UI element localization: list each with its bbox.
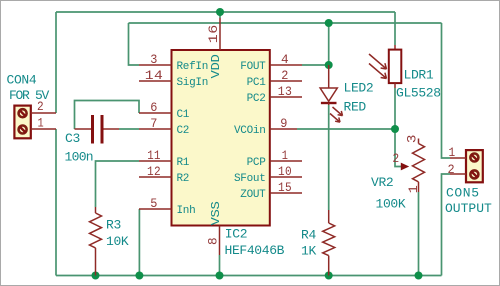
svg-text:9: 9 [280, 116, 288, 131]
pin 3 RefIn [139, 52, 172, 67]
svg-text:R1: R1 [177, 157, 190, 169]
pin 12 R2 [139, 164, 172, 179]
CON5 pin 1 [449, 145, 467, 160]
pin 8 VSS [206, 226, 221, 256]
CON4 pin 2 [31, 99, 56, 114]
wire RefIn riser to pin3 [129, 23, 140, 65]
pin 10 SFout [270, 164, 302, 179]
connector CON4 [14, 106, 30, 139]
junction FOUT/LED [325, 61, 333, 69]
wire LED anode riser [328, 23, 330, 65]
svg-text:12: 12 [147, 164, 161, 179]
svg-text:LED2: LED2 [344, 81, 374, 96]
pin 15 ZOUT [270, 180, 302, 195]
svg-text:10: 10 [278, 164, 292, 179]
pin 13 PC2 [270, 84, 302, 99]
pin 5 Inh [139, 196, 172, 211]
svg-text:LDR1: LDR1 [404, 68, 434, 83]
svg-text:SFout: SFout [234, 173, 266, 185]
svg-text:FOR 5V: FOR 5V [9, 88, 50, 103]
wire VR2 bottom to ground [418, 192, 420, 276]
svg-text:100n: 100n [65, 150, 93, 165]
svg-text:C1: C1 [177, 109, 190, 121]
junction VCOin/LDR/VR2 [391, 125, 399, 133]
svg-text:2: 2 [281, 68, 289, 83]
op-amp U1 body: IC2 HEF4046B [172, 50, 270, 226]
wire left riser CON4 pin1 to ground rail [55, 129, 57, 276]
svg-text:VDD: VDD [209, 54, 223, 78]
junction RefIn/LED [325, 19, 333, 27]
junction ground R4 [325, 272, 333, 280]
wire VDD drop to pin16 [219, 12, 221, 18]
wire VDD top rail [56, 11, 395, 13]
svg-text:VR2: VR2 [371, 175, 393, 190]
svg-text:GL5528: GL5528 [396, 86, 441, 101]
svg-text:100K: 100K [376, 197, 406, 212]
resistor R3 [90, 207, 102, 276]
pin 4 FOUT [270, 52, 302, 67]
svg-text:VCOin: VCOin [234, 125, 266, 137]
svg-text:1: 1 [406, 185, 421, 194]
wire VCOin net [297, 128, 395, 130]
svg-text:R4: R4 [301, 227, 316, 242]
junction ground Inh [135, 272, 143, 280]
svg-text:2: 2 [393, 151, 400, 166]
svg-text:6: 6 [150, 100, 158, 115]
pin 1 PCP [270, 148, 302, 163]
svg-text:3: 3 [405, 134, 420, 143]
wire LDR top [394, 12, 396, 45]
pin 2 PC1 [270, 68, 302, 83]
svg-text:PCP: PCP [247, 157, 267, 169]
wire LDR bottom to VCOin [394, 88, 396, 129]
wire Inh to ground [138, 209, 140, 276]
pin 6 C1 [139, 100, 172, 115]
svg-text:CON5: CON5 [446, 185, 480, 200]
connector CON5 [466, 150, 483, 182]
svg-text:PC2: PC2 [247, 93, 266, 105]
svg-text:2: 2 [448, 162, 456, 177]
wire C2 net [119, 128, 139, 130]
svg-text:3: 3 [150, 52, 158, 67]
capacitor C3 [75, 115, 120, 144]
IC pin names [177, 54, 267, 225]
junction VDD/pin16 [216, 8, 224, 16]
svg-text:SigIn: SigIn [177, 77, 209, 89]
svg-text:OUTPUT: OUTPUT [445, 201, 492, 216]
wire C1 net [75, 101, 140, 130]
svg-text:RED: RED [344, 100, 367, 115]
wire CON5 pin1 riser [442, 23, 451, 158]
svg-text:7: 7 [150, 116, 158, 131]
CON5 pin 2 [448, 162, 467, 177]
LED D2 [320, 65, 342, 122]
svg-text:16: 16 [206, 24, 221, 43]
svg-text:RefIn: RefIn [177, 61, 209, 73]
svg-text:14: 14 [145, 68, 164, 83]
svg-text:CON4: CON4 [7, 73, 37, 88]
pin 11 R1 [139, 148, 172, 163]
svg-text:15: 15 [278, 180, 292, 195]
svg-text:1: 1 [38, 116, 45, 131]
photoresistor LDR1 [369, 45, 401, 88]
wire FOUT to LED [302, 64, 329, 66]
CON4 pin 1 [31, 116, 56, 131]
wire ground bottom rail [56, 275, 442, 277]
wire R1 to R3 [96, 161, 140, 207]
svg-text:PC1: PC1 [247, 77, 267, 89]
resistor R4 [323, 210, 335, 276]
svg-text:8: 8 [206, 237, 221, 245]
wire RefIn net horizontal [129, 22, 442, 24]
svg-text:C2: C2 [177, 125, 190, 137]
pin 16 VDD [206, 18, 221, 50]
svg-text:VSS: VSS [209, 201, 223, 225]
pin 14 SigIn [139, 68, 172, 83]
wire CON5 pin2 to ground [442, 174, 451, 276]
svg-text:5: 5 [150, 196, 158, 211]
svg-text:13: 13 [278, 84, 293, 99]
svg-text:ZOUT: ZOUT [240, 189, 266, 201]
svg-text:10K: 10K [106, 234, 129, 249]
wire left riser to CON4 pin2 [55, 12, 57, 113]
svg-text:IC2: IC2 [225, 227, 247, 242]
svg-text:C3: C3 [65, 131, 80, 146]
wire VCOin to VR2 wiper [395, 129, 401, 167]
wire LED cathode to R4 [328, 105, 330, 210]
svg-text:FOUT: FOUT [240, 61, 266, 73]
svg-text:1K: 1K [301, 243, 316, 258]
svg-text:R3: R3 [106, 218, 121, 233]
svg-text:R2: R2 [177, 173, 190, 185]
svg-text:HEF4046B: HEF4046B [225, 243, 285, 258]
pin 9 VCOin [270, 116, 297, 131]
svg-text:4: 4 [281, 52, 289, 67]
svg-text:Inh: Inh [177, 205, 196, 217]
wire VSS to ground [219, 255, 221, 276]
junction ground VSS [216, 272, 224, 280]
svg-text:11: 11 [147, 148, 161, 163]
junction ground VR2 [415, 272, 423, 280]
potentiometer VR2 [401, 139, 425, 193]
pin 7 C2 [139, 116, 172, 131]
junction ground R3 [92, 272, 100, 280]
svg-text:1: 1 [449, 145, 456, 160]
svg-text:1: 1 [282, 148, 289, 163]
